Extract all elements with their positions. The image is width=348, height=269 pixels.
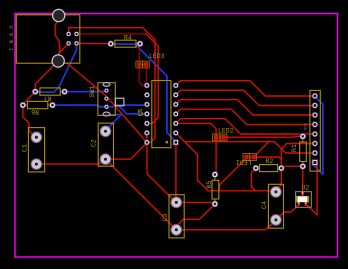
resistor R5 pads [212,171,219,207]
svg-text:R5: R5 [206,181,213,189]
wire LED2 left pad down to R5 top pad [215,140,216,175]
wire R2 right pad up over R1 to header pad6 [281,144,315,169]
LED3 smd pads [136,61,149,68]
resistor R1 outline [300,142,307,162]
wire IC square pad down to C3 top pad [175,142,177,202]
wire C2 bottom pad right to IC pin7 left [106,143,147,159]
resistor R4 outline [115,40,136,47]
wire blue R4 left pad through body down to IC pin1 square pad [111,44,176,142]
wire LED1 right pad right to R2 right pad [254,157,282,168]
capacitor C2 pads [100,126,111,165]
resistor R7 pads [32,88,68,95]
wire USB D- continued bright, vertical to IC pin5 left [146,34,158,124]
wire LED2 right pad to R1 top pad [223,135,303,138]
wire blue R6 branch to IC pin4 left (5V net) [118,105,147,114]
svg-text:C3: C3 [162,214,169,222]
wire LED1 right pad up to IC pin6 net [254,142,271,157]
resistor R4 pads [108,40,144,47]
wire blue header pad1 around right side to square pad [315,97,323,175]
switch SW1 pads [103,83,110,116]
resistor R1 pads [300,133,307,170]
svg-text:R1: R1 [291,144,298,152]
wire USB pad to R4 left pad [77,42,111,44]
svg-text:C2: C2 [91,139,98,147]
resistor lead stubs [24,44,303,203]
wire U2 left pad to C4 bottom pad [276,205,299,221]
wire IC pin6 left down to C3 top pad [147,133,176,202]
wire LED1 left pad diagonal down-left to C4 net [220,158,247,191]
wire bundle IC pin3 right to header pad3 [176,100,315,115]
capacitor C4 pads [271,187,282,226]
wire R1 bottom pad to R2 right pad [281,166,303,168]
wire USB bottom hole diagonal to IC pin7 left [58,61,147,142]
capacitor C4 outline [268,184,283,228]
svg-text:R6: R6 [31,108,39,115]
wire C3 top pad right to R5 bottom pad [176,202,215,204]
svg-text:SW1: SW1 [89,86,96,98]
wire header square pad down right side to U2 right pad [306,163,317,215]
wire dark-red USB D- pad horizontal run [77,33,147,35]
resistor R5 outline [212,180,219,199]
resistor R2 outline [260,165,278,172]
wire C3 bottom pad right to C4 bottom pad [176,220,276,230]
resistor R2 pads [253,165,285,172]
switch SW1 actuator white rect [115,98,124,106]
header SV1 outline [310,90,320,171]
wire C4 top horizontal run [208,190,276,192]
wire R2 left pad down to C4 horizontal [252,168,256,191]
IC U1 pin1 square pad [173,140,179,146]
wire bundle IC pin4 right to header pad4 [176,109,315,124]
wire R6 left pad down to C1 top pad [23,105,37,137]
capacitor C3 outline [169,195,184,238]
switch SW1 outline [98,83,115,116]
wire R4 right pad down to LED3 left pad [138,44,141,65]
svg-text:R4: R4 [124,35,132,42]
wire bundle IC pin5 right to header pad5 [176,119,315,134]
transistor U2 package [296,192,312,208]
IC U1 pin1 orientation dot [166,141,169,144]
LED2 smd pads [213,134,228,141]
wire bundle IC pin2 right to header pad2 [176,90,315,105]
USB1 connector outline [16,15,80,63]
wire dark-red LED3 left pad down to IC pin row1 left [139,65,147,86]
svg-text:U2: U2 [302,185,310,192]
wire dark-red LED3 right pad down to IC pin row1 left [145,65,148,86]
resistor R6 outline [28,101,48,108]
wire USB pad diagonal to bottom shield hole [58,43,68,60]
USB1 shield hole bottom [52,55,64,67]
svg-text:USB1: USB1 [7,26,14,55]
IC U1 pads right column [173,83,179,136]
USB1 signal pads 2x2 [66,31,79,46]
svg-text:R7: R7 [44,95,52,102]
svg-text:LED3: LED3 [149,53,165,60]
wire IC pin5 right to LED2 left pad [176,123,216,137]
svg-text:R2: R2 [266,158,274,165]
capacitor C3 pads [171,197,182,235]
capacitor C2 outline [98,123,113,166]
wire blue USB pad down through R7 body to R7 left pad [35,43,76,92]
wire blue SW1 bottom pad to C2 top pad [106,115,122,132]
wire USB bottom hole to R7 left pad [35,61,58,92]
wire C1 bottom pad to C2 bottom pad [36,159,105,164]
wire R5 bottom pad down-left to C3 bottom pad [176,204,215,230]
wire IC pin6 right pad to header pad7 [176,133,315,153]
IC U1 pads left column [144,83,150,146]
svg-text:5: 5 [137,108,143,120]
resistor R6 pads [20,102,56,109]
wire USB shield top hole to bottom hole [55,17,60,59]
wire R7 left pad to R6 left pad [23,92,35,106]
wire C2 bottom pad long diagonal to C3 bottom pad [106,159,177,230]
IC U1 outline [152,81,171,148]
wire R1 bottom pad down to U2 top pad [302,166,304,194]
svg-text:SV1: SV1 [305,122,309,130]
capacitor C1 pads [31,132,42,170]
wire IC pin6 right jog down to C4 net horizontal [185,142,209,191]
wire USB D+ pad up and right, down vertical to IC pin7 left [69,28,155,143]
wire R2 right pad to C4 top pad [276,168,281,192]
svg-text:C1: C1 [22,144,29,152]
svg-text:C4: C4 [261,201,268,209]
svg-text:LED2: LED2 [218,128,234,135]
USB1 shield hole top [53,9,65,21]
LED1 smd pads [243,154,256,161]
resistor R7 outline [40,88,60,95]
svg-text:LED1: LED1 [236,159,252,166]
wire blue R7 right pad to SW1 pin [65,91,107,92]
capacitor C1 outline [28,128,44,172]
wire blue R6 right pad via SW1 pin to IC pin3 left [53,104,147,106]
header SV1 pads [312,93,318,166]
wire bundle IC pin1 right to header pad1 [176,81,315,96]
